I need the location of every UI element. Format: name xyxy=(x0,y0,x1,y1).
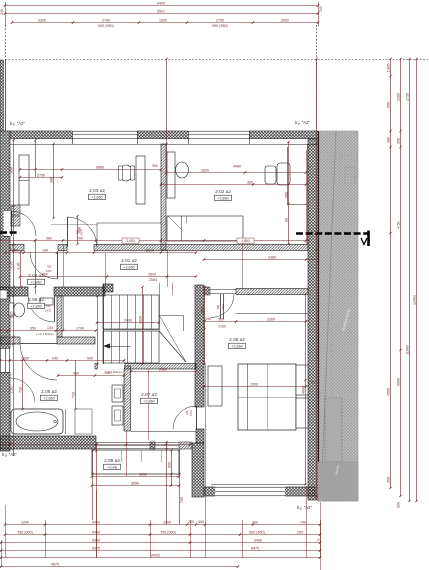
svg-text:1200: 1200 xyxy=(163,520,171,524)
svg-text:400: 400 xyxy=(198,520,204,524)
svg-text:900 (950): 900 (950) xyxy=(212,24,227,28)
svg-text:2960: 2960 xyxy=(159,367,167,371)
svg-text:1500: 1500 xyxy=(201,306,205,314)
svg-text:+2,860: +2,860 xyxy=(30,305,41,309)
svg-text:2.07 a2: 2.07 a2 xyxy=(141,392,157,397)
svg-text:710: 710 xyxy=(72,392,76,398)
svg-text:700: 700 xyxy=(77,236,83,240)
svg-text:4000: 4000 xyxy=(302,386,306,394)
svg-text:1,95: 1,95 xyxy=(17,263,21,270)
svg-text:200: 200 xyxy=(188,520,194,524)
svg-text:2.03 a2: 2.03 a2 xyxy=(89,188,105,193)
svg-text:710: 710 xyxy=(19,387,23,393)
svg-text:3300: 3300 xyxy=(38,18,46,22)
svg-text:2700: 2700 xyxy=(102,18,110,22)
svg-text:9400: 9400 xyxy=(157,1,165,5)
svg-text:1790: 1790 xyxy=(76,326,84,330)
svg-text:9675: 9675 xyxy=(51,562,59,566)
svg-text:2.09 a2: 2.09 a2 xyxy=(104,458,120,463)
svg-text:+2,860: +2,860 xyxy=(30,281,41,285)
svg-text:5,2: 5,2 xyxy=(307,165,311,169)
svg-text:2630: 2630 xyxy=(139,316,143,324)
svg-text:1,850: 1,850 xyxy=(242,239,250,243)
svg-text:2300: 2300 xyxy=(267,317,275,321)
svg-text:950: 950 xyxy=(30,326,36,330)
svg-text:+2,860: +2,860 xyxy=(91,196,102,200)
svg-text:2620: 2620 xyxy=(148,272,156,276)
svg-text:b.j. "A2": b.j. "A2" xyxy=(10,121,25,126)
svg-text:240: 240 xyxy=(319,6,323,12)
svg-text:2400: 2400 xyxy=(124,318,132,322)
svg-text:11060: 11060 xyxy=(406,345,410,355)
svg-text:2000: 2000 xyxy=(281,18,289,22)
svg-text:5960: 5960 xyxy=(92,538,100,542)
svg-text:940: 940 xyxy=(52,356,58,360)
svg-text:1,35: 1,35 xyxy=(10,312,14,319)
svg-text:140: 140 xyxy=(42,248,48,252)
svg-text:3850: 3850 xyxy=(139,472,147,476)
svg-text:350: 350 xyxy=(397,138,401,144)
svg-text:750 (900): 750 (900) xyxy=(17,530,32,534)
svg-text:5975: 5975 xyxy=(92,546,100,550)
svg-text:700: 700 xyxy=(42,272,48,276)
svg-text:+2,860: +2,860 xyxy=(123,266,134,270)
svg-text:700: 700 xyxy=(300,520,306,524)
svg-text:360: 360 xyxy=(387,137,391,143)
svg-text:900: 900 xyxy=(87,356,93,360)
svg-text:9501: 9501 xyxy=(157,9,165,13)
svg-text:2.06 a2: 2.06 a2 xyxy=(28,297,44,302)
svg-text:960: 960 xyxy=(73,371,79,375)
svg-text:960: 960 xyxy=(46,236,52,240)
svg-text:140: 140 xyxy=(47,326,53,330)
svg-text:+2,860: +2,860 xyxy=(231,345,242,349)
svg-text:2300: 2300 xyxy=(250,382,258,386)
svg-text:1735: 1735 xyxy=(406,93,410,101)
svg-text:960: 960 xyxy=(152,164,158,168)
svg-text:2790: 2790 xyxy=(37,173,45,177)
svg-text:1,35: 1,35 xyxy=(10,262,14,269)
svg-text:4480: 4480 xyxy=(233,165,241,169)
svg-text:2700: 2700 xyxy=(216,18,224,22)
svg-text:360: 360 xyxy=(247,180,253,184)
svg-text:2.05 a2: 2.05 a2 xyxy=(41,389,57,394)
svg-text:5510: 5510 xyxy=(146,248,154,252)
svg-text:2064: 2064 xyxy=(149,278,157,282)
svg-text:190: 190 xyxy=(205,317,211,321)
svg-text:2360: 2360 xyxy=(268,255,276,259)
svg-text:4,50: 4,50 xyxy=(397,222,401,229)
svg-text:300: 300 xyxy=(397,502,401,508)
svg-text:2.08 a2: 2.08 a2 xyxy=(229,337,245,342)
svg-text:,5: ,5 xyxy=(317,538,320,542)
svg-text:700: 700 xyxy=(180,497,184,503)
svg-text:400: 400 xyxy=(78,227,82,233)
svg-text:90: 90 xyxy=(285,218,289,222)
svg-text:1650: 1650 xyxy=(21,356,29,360)
svg-text:1,805: 1,805 xyxy=(387,64,391,73)
svg-text:3450: 3450 xyxy=(254,538,262,542)
svg-text:6475: 6475 xyxy=(251,546,259,550)
svg-text:1970: 1970 xyxy=(189,410,193,416)
svg-text:900: 900 xyxy=(218,317,224,321)
svg-text:b.j. "A2": b.j. "A2" xyxy=(2,452,17,457)
svg-text:1500: 1500 xyxy=(159,18,167,22)
svg-text:800: 800 xyxy=(217,304,220,309)
svg-text:+2,860: +2,860 xyxy=(217,197,228,201)
svg-text:1970: 1970 xyxy=(222,304,225,310)
svg-text:2,050: 2,050 xyxy=(127,239,135,243)
svg-text:300: 300 xyxy=(10,167,14,173)
svg-text:b.j. "A2": b.j. "A2" xyxy=(295,120,310,125)
svg-text:2150: 2150 xyxy=(218,325,226,329)
svg-text:380: 380 xyxy=(50,177,54,183)
svg-text:+2,860: +2,860 xyxy=(43,397,54,401)
svg-text:5,2: 5,2 xyxy=(311,380,315,384)
svg-text:300: 300 xyxy=(252,520,258,524)
svg-text:p.ch. 1 600mm: p.ch. 1 600mm xyxy=(36,332,53,336)
svg-text:4550: 4550 xyxy=(387,388,391,396)
svg-text:12062: 12062 xyxy=(413,295,417,305)
svg-text:+2,48: +2,48 xyxy=(107,466,116,470)
svg-text:b.j. "A2": b.j. "A2" xyxy=(297,505,312,510)
svg-text:2.01 a2: 2.01 a2 xyxy=(121,258,137,263)
svg-text:+2,860: +2,860 xyxy=(143,400,154,404)
svg-text:500 (450): 500 (450) xyxy=(249,530,264,534)
svg-text:5460: 5460 xyxy=(92,530,100,534)
svg-text:750 (900): 750 (900) xyxy=(160,530,175,534)
svg-text:950: 950 xyxy=(387,102,391,108)
svg-text:1970: 1970 xyxy=(45,309,51,313)
svg-text:250: 250 xyxy=(297,530,303,534)
svg-text:6000: 6000 xyxy=(397,378,401,386)
svg-text:240: 240 xyxy=(0,9,4,15)
svg-text:2,10: 2,10 xyxy=(10,387,14,394)
svg-text:5400: 5400 xyxy=(92,520,100,524)
svg-text:700: 700 xyxy=(47,265,52,269)
svg-text:2620: 2620 xyxy=(201,168,209,172)
svg-text:3050: 3050 xyxy=(131,481,139,485)
svg-text:6880: 6880 xyxy=(96,165,104,169)
svg-text:2.02 a2: 2.02 a2 xyxy=(215,189,231,194)
svg-text:p.ch. 1 600mm: p.ch. 1 600mm xyxy=(104,370,121,374)
svg-text:10052: 10052 xyxy=(150,553,160,557)
svg-text:900: 900 xyxy=(168,462,172,468)
svg-text:350: 350 xyxy=(387,477,391,483)
svg-text:700: 700 xyxy=(185,410,189,415)
svg-text:900 (950): 900 (950) xyxy=(98,24,113,28)
svg-text:2360: 2360 xyxy=(397,93,401,101)
svg-text:1200: 1200 xyxy=(21,520,29,524)
svg-text:300: 300 xyxy=(285,192,289,198)
